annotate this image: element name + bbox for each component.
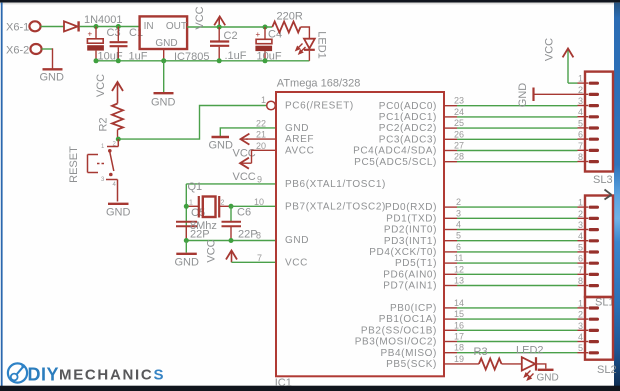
svg-text:4: 4 bbox=[578, 332, 583, 342]
svg-text:12: 12 bbox=[454, 264, 464, 274]
svg-text:20: 20 bbox=[256, 141, 266, 151]
svg-text:PB7(XTAL2/TOSC2): PB7(XTAL2/TOSC2) bbox=[285, 201, 386, 212]
svg-text:PB6(XTAL1/TOSC1): PB6(XTAL1/TOSC1) bbox=[285, 179, 386, 190]
capacitor C3 polarized 10uF bbox=[87, 27, 104, 61]
resistor R3 bbox=[479, 359, 502, 370]
IC right pin stubs PC bbox=[444, 106, 457, 162]
svg-text:MECHANICS: MECHANICS bbox=[59, 367, 165, 384]
IC right pin names PB bbox=[355, 303, 437, 370]
svg-text:GND: GND bbox=[537, 373, 559, 384]
svg-text:X6-1: X6-1 bbox=[6, 22, 29, 34]
wire 7805 OUT to LED branch bbox=[187, 26, 272, 28]
svg-text:28: 28 bbox=[454, 152, 464, 162]
svg-text:GND: GND bbox=[175, 257, 200, 269]
svg-text:2: 2 bbox=[221, 200, 225, 207]
svg-text:22P: 22P bbox=[238, 229, 258, 241]
svg-text:13: 13 bbox=[454, 276, 464, 286]
svg-text:GND: GND bbox=[151, 97, 176, 109]
SL3 pin numbers bbox=[578, 74, 583, 162]
svg-text:18: 18 bbox=[454, 343, 464, 353]
7805 GND pin lead bbox=[163, 49, 165, 61]
junction 7805 GND bbox=[161, 58, 166, 63]
LED1 emission arrows bbox=[296, 44, 306, 54]
svg-text:PB0(ICP): PB0(ICP) bbox=[390, 303, 437, 314]
svg-text:GND: GND bbox=[517, 83, 529, 108]
connector SL2 body bbox=[585, 297, 613, 360]
svg-text:21: 21 bbox=[256, 130, 266, 140]
wire LED2 to ground bbox=[536, 364, 546, 369]
connector SL3 body bbox=[585, 72, 613, 172]
IC right pin names PD bbox=[369, 202, 437, 291]
IC right pin stubs PD bbox=[444, 207, 457, 285]
svg-text:SL3: SL3 bbox=[593, 174, 613, 186]
supply VCC at IC pin7 bbox=[206, 239, 238, 262]
svg-text:4: 4 bbox=[578, 107, 583, 117]
wire 220R to LED1 bbox=[301, 27, 310, 38]
wire IC pin9 to crystal net bbox=[186, 183, 276, 185]
svg-text:X6-2: X6-2 bbox=[6, 45, 29, 57]
svg-text:23: 23 bbox=[454, 96, 464, 106]
SL1 pin numbers bbox=[578, 198, 583, 286]
svg-text:RESET: RESET bbox=[68, 146, 80, 183]
svg-text:7: 7 bbox=[257, 253, 262, 263]
supply VCC at 7805 output bbox=[194, 6, 225, 29]
junction crystal pin2 bbox=[229, 204, 234, 209]
svg-text:PD6(AIN0): PD6(AIN0) bbox=[383, 269, 437, 280]
ground under switch bbox=[106, 204, 131, 219]
IC right pin numbers PB bbox=[454, 298, 464, 364]
svg-text:DIY: DIY bbox=[28, 365, 60, 385]
svg-text:8: 8 bbox=[578, 276, 583, 286]
junction VCC / C2 bbox=[217, 25, 222, 30]
svg-text:3: 3 bbox=[456, 208, 461, 218]
resistor 220R bbox=[272, 22, 300, 33]
wire 7805 GND down bbox=[163, 61, 165, 92]
svg-text:2: 2 bbox=[456, 197, 461, 207]
svg-text:VCC: VCC bbox=[233, 171, 256, 183]
ground at LED2 bbox=[537, 370, 559, 384]
svg-text:14: 14 bbox=[454, 298, 464, 308]
switch actuator bracket bbox=[88, 155, 105, 173]
svg-text:24: 24 bbox=[454, 107, 464, 117]
junction C1 bottom bbox=[116, 58, 121, 63]
LED LED2 bbox=[522, 357, 536, 370]
svg-text:7: 7 bbox=[578, 141, 583, 151]
svg-text:C2: C2 bbox=[224, 30, 238, 42]
diode D1 1N4001 bbox=[64, 21, 79, 31]
capacitor C4 polarized 10uF bbox=[255, 27, 272, 61]
wire C6 vertical top bbox=[230, 206, 232, 221]
svg-text:PC0(ADC0): PC0(ADC0) bbox=[379, 101, 437, 112]
svg-text:IN: IN bbox=[144, 21, 154, 32]
svg-text:220R: 220R bbox=[277, 11, 303, 23]
svg-text:3: 3 bbox=[578, 321, 583, 331]
svg-text:PB5(SCK): PB5(SCK) bbox=[386, 359, 437, 370]
svg-text:VCC: VCC bbox=[95, 74, 107, 97]
svg-text:5: 5 bbox=[578, 118, 583, 128]
svg-text:R3: R3 bbox=[474, 346, 488, 358]
wire crystal left vertical bbox=[185, 184, 187, 241]
svg-text:22: 22 bbox=[256, 118, 266, 128]
junction node A (C3 top) bbox=[94, 24, 99, 29]
svg-text:PD0(RXD): PD0(RXD) bbox=[385, 202, 437, 213]
svg-text:PB3(MOSI/OC2): PB3(MOSI/OC2) bbox=[355, 337, 437, 348]
SL3 pin stubs bbox=[589, 82, 600, 164]
junction C4 bottom bbox=[263, 58, 268, 63]
capacitor C5 22P bbox=[176, 222, 197, 241]
svg-text:PC2(ADC2): PC2(ADC2) bbox=[379, 123, 437, 134]
connector X6-1 pad bbox=[29, 21, 40, 31]
wire X6-1 to diode D1 bbox=[41, 26, 64, 28]
page top border bbox=[0, 0, 620, 3]
wire IC pin19 to R3 bbox=[444, 363, 479, 365]
supply VCC at SL3 pin1 bbox=[544, 38, 574, 83]
IC left pin numbers bbox=[254, 95, 266, 263]
voltage regulator IC2 7805 body bbox=[140, 16, 188, 49]
svg-text:SL2: SL2 bbox=[597, 364, 617, 376]
wire IC pin20 bbox=[252, 150, 277, 163]
svg-text:6: 6 bbox=[578, 254, 583, 264]
IC pin 1 inverting bubble bbox=[267, 101, 276, 110]
svg-text:7: 7 bbox=[578, 265, 583, 275]
SL2 pin leads bbox=[578, 308, 589, 353]
svg-text:PC6(/RESET): PC6(/RESET) bbox=[285, 101, 354, 112]
svg-text:PC4(ADC4/SDA): PC4(ADC4/SDA) bbox=[353, 146, 437, 157]
svg-text:ATmega 168/328: ATmega 168/328 bbox=[277, 78, 361, 90]
ground X6-2 bbox=[40, 69, 65, 83]
svg-text:LED2: LED2 bbox=[516, 345, 544, 357]
svg-text:9: 9 bbox=[257, 174, 262, 184]
svg-text:5: 5 bbox=[578, 242, 583, 252]
svg-text:IC1: IC1 bbox=[275, 377, 292, 389]
svg-text:5: 5 bbox=[578, 343, 583, 353]
svg-text:10uF: 10uF bbox=[257, 51, 282, 63]
junction C4 top bbox=[263, 25, 268, 30]
IC right pin numbers PD bbox=[454, 197, 464, 285]
svg-text:.1uF: .1uF bbox=[225, 50, 247, 62]
wire X6-2 to ground bbox=[42, 48, 53, 68]
ground at SL3 pin2 bbox=[517, 83, 578, 108]
wire crystal pin2 to IC pin10 bbox=[231, 205, 276, 207]
SL2 pin stubs bbox=[589, 306, 600, 354]
svg-text:GND: GND bbox=[155, 38, 177, 49]
capacitor C6 22P bbox=[222, 222, 242, 241]
svg-text:VCC: VCC bbox=[285, 257, 308, 268]
IC right pin stubs PB bbox=[444, 308, 457, 353]
wire IC pin22 to ground bbox=[220, 128, 276, 136]
page left border bbox=[1, 3, 3, 388]
annotation arrow at SL1 corner bbox=[605, 190, 612, 200]
svg-text:1: 1 bbox=[578, 298, 583, 308]
svg-text:GND: GND bbox=[40, 72, 65, 84]
crystal Q1 bbox=[186, 196, 231, 218]
svg-text:C1: C1 bbox=[129, 27, 143, 39]
svg-text:+: + bbox=[256, 30, 261, 39]
svg-text:LED1: LED1 bbox=[316, 31, 328, 59]
switch S1 RESET bbox=[106, 139, 118, 201]
connector X6-2 pad bbox=[30, 44, 41, 54]
page bottom border bbox=[0, 386, 620, 391]
svg-text:VCC: VCC bbox=[194, 6, 206, 29]
IC right pin names PC bbox=[353, 101, 437, 168]
svg-text:4: 4 bbox=[456, 220, 461, 230]
svg-text:2: 2 bbox=[578, 209, 583, 219]
svg-text:PD4(XCK/T0): PD4(XCK/T0) bbox=[369, 247, 437, 258]
svg-text:6: 6 bbox=[578, 130, 583, 140]
wire to crystal ground bbox=[185, 241, 187, 253]
junction node B (C1 top) bbox=[116, 24, 121, 29]
supply VCC arrow at pin21 bbox=[233, 134, 256, 160]
wire VCC to SL3 pin1 bbox=[568, 82, 578, 84]
supply VCC above R2 bbox=[95, 74, 123, 104]
LED LED1 bbox=[304, 39, 315, 61]
svg-text:VCC: VCC bbox=[206, 239, 218, 262]
svg-text:C6: C6 bbox=[237, 207, 251, 219]
svg-text:PC3(ADC3): PC3(ADC3) bbox=[379, 134, 437, 145]
svg-text:10: 10 bbox=[254, 197, 264, 207]
svg-text:AREF: AREF bbox=[285, 134, 314, 145]
wire VCC to IC pin7 bbox=[232, 261, 277, 263]
supply VCC arrow at pin20 bbox=[233, 158, 256, 183]
junction C3 bottom bbox=[94, 58, 99, 63]
svg-text:3: 3 bbox=[578, 220, 583, 230]
svg-text:1: 1 bbox=[261, 95, 266, 105]
junction C6 bottom bbox=[229, 238, 234, 243]
svg-text:26: 26 bbox=[454, 129, 464, 139]
svg-text:PD3(INT1): PD3(INT1) bbox=[384, 236, 437, 247]
svg-text:3: 3 bbox=[578, 96, 583, 106]
IC left pin names bbox=[285, 101, 386, 269]
logo icon circle bbox=[8, 363, 27, 382]
svg-text:8: 8 bbox=[256, 230, 261, 240]
svg-text:GND: GND bbox=[209, 140, 234, 152]
svg-text:1: 1 bbox=[578, 74, 583, 84]
wire R2 bottom to junction bbox=[117, 130, 119, 140]
svg-text:8: 8 bbox=[578, 152, 583, 162]
svg-text:VCC: VCC bbox=[233, 148, 256, 160]
capacitor C1 1uF bbox=[110, 27, 128, 61]
svg-text:AVCC: AVCC bbox=[285, 145, 314, 156]
ground rail (bottom) bbox=[96, 60, 309, 62]
svg-text:PB4(MISO): PB4(MISO) bbox=[380, 348, 437, 359]
ground under crystal bbox=[175, 254, 200, 269]
junction R2 / switch bbox=[116, 137, 121, 142]
svg-text:GND: GND bbox=[285, 235, 309, 246]
page right border bbox=[614, 3, 620, 389]
wires IC PC pins to SL3 bbox=[457, 106, 578, 162]
ground at AREF bbox=[209, 137, 234, 152]
svg-text:VCC: VCC bbox=[544, 38, 556, 61]
resistor R2 bbox=[112, 104, 123, 130]
svg-text:PD2(INT0): PD2(INT0) bbox=[384, 225, 437, 236]
junction crystal pin1 bbox=[184, 204, 189, 209]
wire crystal caps to IC pin8 bbox=[186, 240, 276, 242]
svg-text:1N4001: 1N4001 bbox=[84, 14, 123, 26]
IC right pin numbers PC bbox=[454, 96, 464, 162]
wire IC pin21 bbox=[246, 138, 276, 140]
svg-text:16: 16 bbox=[454, 320, 464, 330]
svg-text:6: 6 bbox=[456, 242, 461, 252]
IC1 ATmega body bbox=[276, 92, 444, 376]
svg-text:PB2(SS/OC1B): PB2(SS/OC1B) bbox=[361, 325, 437, 336]
svg-text:GND: GND bbox=[285, 123, 309, 134]
svg-text:PD1(TXD): PD1(TXD) bbox=[386, 213, 437, 224]
svg-text:4: 4 bbox=[578, 231, 583, 241]
capacitor C2 .1uF bbox=[210, 27, 229, 61]
wires IC PB pins to SL2 bbox=[457, 308, 578, 353]
wire diode to node A bbox=[80, 26, 140, 28]
svg-text:27: 27 bbox=[454, 141, 464, 151]
svg-text:1: 1 bbox=[189, 200, 193, 207]
svg-text:22P: 22P bbox=[190, 229, 210, 241]
svg-text:19: 19 bbox=[454, 354, 464, 364]
svg-text:OUT: OUT bbox=[166, 21, 187, 32]
wire reset net to IC pin 1 bbox=[118, 106, 266, 140]
svg-text:+: + bbox=[88, 30, 93, 39]
svg-text:PD7(AIN1): PD7(AIN1) bbox=[383, 281, 437, 292]
svg-text:5: 5 bbox=[456, 231, 461, 241]
junction C2 bottom bbox=[217, 58, 222, 63]
ground under 7805 bbox=[151, 93, 176, 108]
SL1 pin leads bbox=[578, 207, 589, 285]
svg-text:PC5(ADC5/SCL): PC5(ADC5/SCL) bbox=[354, 157, 437, 168]
svg-text:15: 15 bbox=[454, 309, 464, 319]
svg-text:1: 1 bbox=[578, 198, 583, 208]
SL3 pin leads bbox=[578, 83, 589, 161]
wire R3 to LED2 bbox=[502, 363, 522, 365]
wires IC PD pins to SL1 bbox=[457, 207, 578, 285]
svg-text:PB1(OC1A): PB1(OC1A) bbox=[379, 314, 437, 325]
connector SL1 body bbox=[585, 196, 613, 298]
svg-text:Q1: Q1 bbox=[188, 181, 203, 193]
junction C5 bottom bbox=[184, 238, 189, 243]
LED2 emission arrows bbox=[525, 371, 534, 380]
svg-text:PD5(T1): PD5(T1) bbox=[395, 258, 437, 269]
SL1 pin stubs bbox=[589, 206, 600, 288]
svg-text:11: 11 bbox=[454, 253, 463, 263]
SL2 pin numbers bbox=[578, 298, 583, 353]
light line under top border bbox=[0, 3, 620, 5]
svg-text:25: 25 bbox=[454, 118, 464, 128]
svg-text:17: 17 bbox=[454, 332, 464, 342]
svg-text:2: 2 bbox=[578, 310, 583, 320]
svg-text:R2: R2 bbox=[98, 117, 110, 131]
svg-text:GND: GND bbox=[106, 207, 131, 219]
svg-text:PC1(ADC1): PC1(ADC1) bbox=[379, 112, 437, 123]
svg-text:2: 2 bbox=[578, 85, 583, 95]
